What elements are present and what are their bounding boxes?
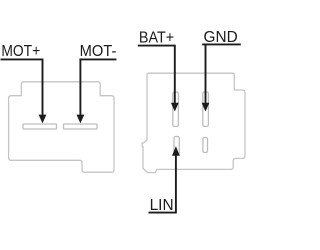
svg-text:GND: GND [204,29,238,46]
svg-text:LIN: LIN [150,197,174,214]
svg-text:BAT+: BAT+ [139,30,174,47]
svg-text:MOT+: MOT+ [1,43,40,60]
svg-text:MOT-: MOT- [80,43,117,60]
